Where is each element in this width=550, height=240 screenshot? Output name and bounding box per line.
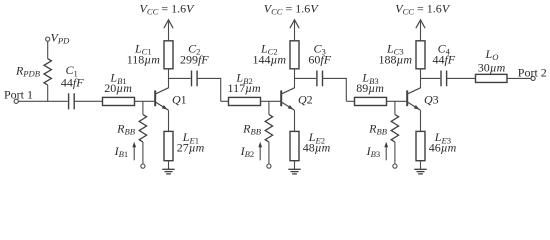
transistor Q3	[407, 88, 438, 110]
wire corner to LB2	[221, 100, 229, 102]
wire emitter to ground	[420, 161, 422, 170]
current arrow IB3	[366, 142, 388, 161]
ground stage 1	[162, 169, 174, 174]
inductor LB1	[103, 71, 135, 106]
wire RBB to IB2 terminal	[268, 142, 270, 164]
inductor LE1	[164, 130, 205, 161]
svg-text:44fF: 44fF	[61, 76, 84, 90]
node VPD terminal	[46, 30, 70, 45]
svg-text:117µm: 117µm	[228, 81, 261, 95]
capacitor C3	[308, 41, 331, 86]
inductor LB2	[228, 71, 261, 106]
power VCC stage 3	[395, 1, 451, 40]
inductor LC3	[379, 41, 425, 69]
svg-text:30µm: 30µm	[478, 61, 506, 75]
wire LB2 to Q2 base	[261, 100, 281, 102]
svg-text:60fF: 60fF	[308, 53, 331, 67]
capacitor C2	[180, 41, 209, 86]
wire C2 to corner	[197, 77, 221, 79]
resistor RBB stage 2	[242, 115, 272, 143]
wire input line	[18, 100, 67, 102]
wire base to RBB	[268, 101, 270, 114]
wire LO to Port 2	[507, 77, 531, 79]
svg-text:46µm: 46µm	[429, 140, 457, 154]
wire RBB to IB1 terminal	[142, 142, 144, 164]
ground stage 3	[414, 169, 426, 174]
inductor LC2	[253, 41, 299, 69]
current arrow IB2	[240, 142, 262, 161]
wire emitter to ground	[294, 161, 296, 170]
wire collector	[420, 69, 422, 88]
inductor LO	[476, 47, 508, 83]
svg-text:RBB: RBB	[116, 121, 136, 136]
power VCC stage 2	[264, 1, 320, 40]
svg-text:Port 2: Port 2	[518, 66, 547, 80]
svg-text:IB2: IB2	[240, 144, 255, 159]
node Port 2 terminal	[518, 66, 547, 81]
node IB2 terminal	[267, 164, 271, 168]
wire corner down	[220, 78, 222, 101]
svg-text:Q2: Q2	[298, 92, 313, 106]
wire emitter to ground	[168, 161, 170, 170]
wire collector node to C4	[421, 77, 441, 79]
wire LB3 to Q3 base	[387, 100, 407, 102]
wire base to RBB	[394, 101, 396, 114]
svg-text:VCC = 1.6V: VCC = 1.6V	[395, 1, 451, 16]
wire C4 to LO	[447, 77, 476, 79]
wire RPDB to input line	[47, 85, 49, 101]
transistor Q2	[281, 88, 312, 110]
wire C3 to corner	[323, 77, 347, 79]
inductor LE3	[416, 130, 457, 161]
wire collector node to C2	[169, 77, 191, 79]
current arrow IB1	[114, 142, 136, 161]
svg-text:89µm: 89µm	[356, 81, 384, 95]
svg-text:IB3: IB3	[366, 144, 381, 159]
wire corner down	[345, 78, 347, 101]
svg-text:RPDB: RPDB	[15, 63, 41, 78]
transistor Q1	[155, 88, 186, 110]
node IB3 terminal	[393, 164, 397, 168]
node Port 1 terminal	[4, 88, 33, 104]
inductor LB3	[355, 71, 387, 106]
svg-text:20µm: 20µm	[104, 81, 132, 95]
svg-text:VCC = 1.6V: VCC = 1.6V	[264, 1, 320, 16]
capacitor C1	[61, 63, 84, 109]
wire VPD to RPDB	[47, 41, 49, 59]
wire collector node to C3	[295, 77, 317, 79]
capacitor C4	[432, 41, 455, 86]
power VCC stage 1	[140, 1, 196, 40]
svg-text:Q1: Q1	[172, 92, 187, 106]
wire emitter	[420, 110, 422, 131]
svg-text:299fF: 299fF	[180, 53, 209, 67]
wire corner to LB3	[346, 100, 354, 102]
inductor LC1	[127, 41, 173, 69]
wire base to RBB	[142, 101, 144, 114]
svg-text:144µm: 144µm	[253, 53, 287, 67]
wire collector	[294, 69, 296, 88]
resistor RPDB	[15, 59, 51, 85]
resistor RBB stage 1	[116, 115, 146, 143]
svg-text:188µm: 188µm	[379, 53, 413, 67]
svg-text:RBB: RBB	[242, 121, 262, 136]
wire emitter	[168, 110, 170, 131]
svg-text:IB1: IB1	[114, 144, 129, 159]
svg-text:Q3: Q3	[424, 92, 439, 106]
inductor LE2	[290, 130, 331, 161]
svg-text:118µm: 118µm	[127, 53, 160, 67]
wire LB1 to Q1 base	[135, 100, 155, 102]
svg-text:VPD: VPD	[51, 30, 71, 45]
svg-text:44fF: 44fF	[432, 53, 455, 67]
svg-text:Port 1: Port 1	[4, 88, 33, 102]
svg-text:27µm: 27µm	[177, 140, 205, 154]
resistor RBB stage 3	[368, 115, 398, 143]
ground stage 2	[288, 169, 300, 174]
wire collector	[168, 69, 170, 88]
node IB1 terminal	[141, 164, 145, 168]
wire emitter	[294, 110, 296, 131]
svg-text:48µm: 48µm	[303, 140, 331, 154]
svg-text:RBB: RBB	[368, 121, 388, 136]
wire RBB to IB3 terminal	[394, 142, 396, 164]
wire C1 to LB1	[75, 100, 103, 102]
svg-text:VCC = 1.6V: VCC = 1.6V	[140, 1, 196, 16]
